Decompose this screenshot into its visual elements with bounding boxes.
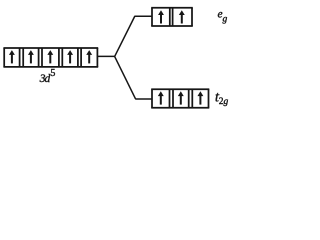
label 3d5 <box>39 68 56 85</box>
wire: branch point down to t2g level <box>115 56 136 99</box>
orbital box row eg (2 cells) <box>151 8 193 26</box>
electron arrows t2g row <box>158 91 164 104</box>
label eg <box>218 8 228 24</box>
wire: 3d row to branch point <box>97 55 115 57</box>
electron arrows 3d row <box>9 10 203 104</box>
orbital box row 3d (5 cells) <box>3 48 98 67</box>
wire: branch point up to eg level <box>115 16 135 57</box>
wire: horizontal into t2g boxes <box>135 98 152 100</box>
svg-text:g: g <box>224 97 229 107</box>
label t2g <box>215 90 229 108</box>
svg-text:5: 5 <box>50 68 55 79</box>
wire: horizontal into eg boxes <box>135 15 152 17</box>
orbital box row t2g (3 cells) <box>151 89 209 107</box>
svg-text:g: g <box>223 15 228 25</box>
electron arrows eg row <box>158 10 164 23</box>
